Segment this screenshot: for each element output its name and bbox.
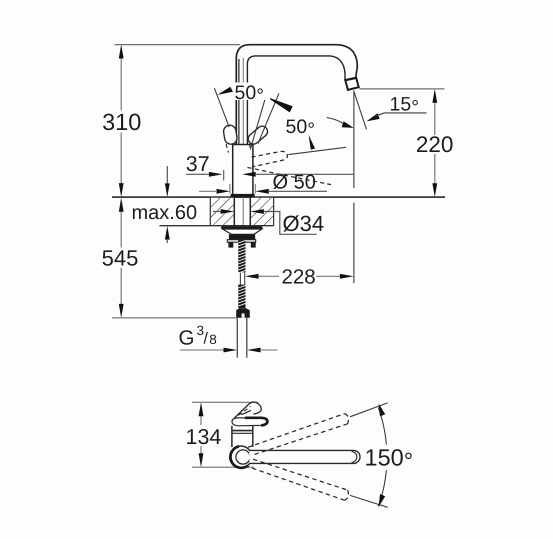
svg-text:8: 8 [209, 332, 217, 347]
extension line spout top [115, 44, 241, 46]
extension line top [192, 401, 258, 403]
aerator [345, 78, 358, 90]
outlet joint line [345, 77, 356, 79]
angle line right lever axis [250, 97, 265, 150]
counter slab right edge [273, 197, 275, 226]
dashed spout upper [248, 414, 349, 455]
lever left position [223, 124, 238, 145]
braided hose lower [238, 285, 245, 309]
body division lines [232, 430, 253, 432]
hose braid texture [238, 240, 245, 306]
fitting notch [242, 314, 245, 318]
swivel circle outer [230, 446, 252, 468]
hose end line [112, 317, 236, 319]
arc arrow top [379, 403, 386, 416]
lever right position [246, 124, 270, 146]
lever right hidden dashes [249, 144, 252, 151]
handle base band thick right [245, 418, 267, 426]
dimension 228 [245, 274, 259, 279]
37 extension line [223, 170, 225, 181]
top view handle beak [234, 402, 261, 418]
svg-text:220: 220 [416, 132, 454, 157]
washer bar [221, 226, 262, 229]
150 boundary line top [350, 403, 388, 417]
svg-text:max.60: max.60 [132, 202, 198, 224]
connection tube right edge [246, 318, 248, 358]
hose end fitting cone [236, 308, 250, 318]
spout outer edge [236, 45, 357, 145]
svg-text:50°: 50° [235, 82, 265, 107]
cone washer [223, 229, 263, 234]
outlet vertical extension line [353, 91, 355, 189]
mounting shank right edge [249, 197, 251, 225]
dimension 134 vertical [200, 415, 202, 456]
arrow 50 first right [266, 97, 293, 113]
15 degree left arc arrow [327, 118, 345, 125]
arrow 50 first left [217, 87, 233, 95]
counter slab hatched right [250, 198, 273, 225]
nut leg left [228, 242, 233, 247]
svg-text:15°: 15° [390, 93, 420, 118]
arrow 310 top [119, 44, 124, 58]
label 15 leader underline [384, 112, 426, 114]
svg-text:Ø 50: Ø 50 [273, 171, 316, 193]
dimension max.60 [166, 166, 168, 184]
nut lower plate [227, 240, 255, 243]
arrow 545 bottom [119, 304, 124, 318]
svg-text:134: 134 [186, 425, 222, 449]
dashed spout lower [248, 459, 349, 500]
arrow 545 upper [119, 198, 124, 212]
diameter 34 dimension [213, 211, 222, 213]
outlet 15 degree slant line [354, 91, 367, 130]
d34 leader bracket [264, 212, 317, 235]
arc arrow bottom [379, 494, 386, 507]
extension line outlet level [359, 88, 444, 90]
svg-text:228: 228 [282, 265, 316, 288]
15 degree right arrow [366, 113, 379, 121]
handle base band outline [232, 418, 267, 426]
hose plain section [239, 272, 241, 284]
arrow 310 bottom [119, 183, 124, 197]
swivel circle inner [236, 450, 250, 464]
svg-text:Ø34: Ø34 [283, 211, 325, 236]
top view body [232, 426, 253, 447]
dimension diameter 50 [199, 190, 216, 192]
faucet body [233, 145, 253, 195]
connection tube left edge [236, 318, 238, 358]
spout left edge inner double [238, 59, 240, 145]
counter slab left edge [209, 197, 211, 226]
150 boundary line bottom [350, 495, 388, 507]
spout bar tip detail [352, 452, 357, 463]
counter bottom line [160, 225, 274, 227]
svg-text:310: 310 [102, 109, 141, 135]
svg-text:150°: 150° [365, 445, 414, 475]
spout inner edge [247, 56, 345, 145]
label 50 first halo [233, 83, 270, 101]
nut leg right [251, 242, 256, 247]
arrow 50 second [309, 135, 315, 150]
dimension 37 [186, 173, 209, 175]
mounting shank left edge [233, 197, 235, 225]
svg-text:/: / [204, 331, 209, 348]
dimension line 310/545 vertical [120, 57, 122, 305]
svg-text:G: G [179, 327, 195, 350]
angle line left lever axis [214, 88, 229, 127]
spout bar solid [249, 450, 360, 463]
d50 extension lines [229, 184, 231, 194]
handle beak inner line [241, 410, 251, 414]
dimension 220 vertical [434, 102, 436, 185]
base flange [231, 194, 255, 197]
lever left hidden dashes [226, 144, 228, 153]
braided hose upper [238, 240, 245, 273]
mounting nut [229, 234, 255, 239]
150 arc upper [378, 408, 386, 445]
dimension G3/8 [180, 349, 225, 351]
svg-text:50°: 50° [286, 116, 316, 141]
150 arc lower [378, 470, 386, 507]
front lever axis line [289, 147, 347, 154]
swivel circle thick left arc [230, 446, 248, 468]
svg-text:37: 37 [186, 152, 210, 176]
faucet centre line [242, 58, 244, 225]
countertop deck line [112, 196, 445, 198]
svg-text:545: 545 [102, 246, 139, 271]
extension line bottom [192, 466, 254, 468]
handle beak dashes [239, 407, 251, 416]
lever front position dashed [252, 151, 288, 166]
lever swing dashed arc [248, 167, 332, 184]
counter slab hatched left [210, 198, 234, 225]
angle line right boundary [258, 93, 279, 143]
